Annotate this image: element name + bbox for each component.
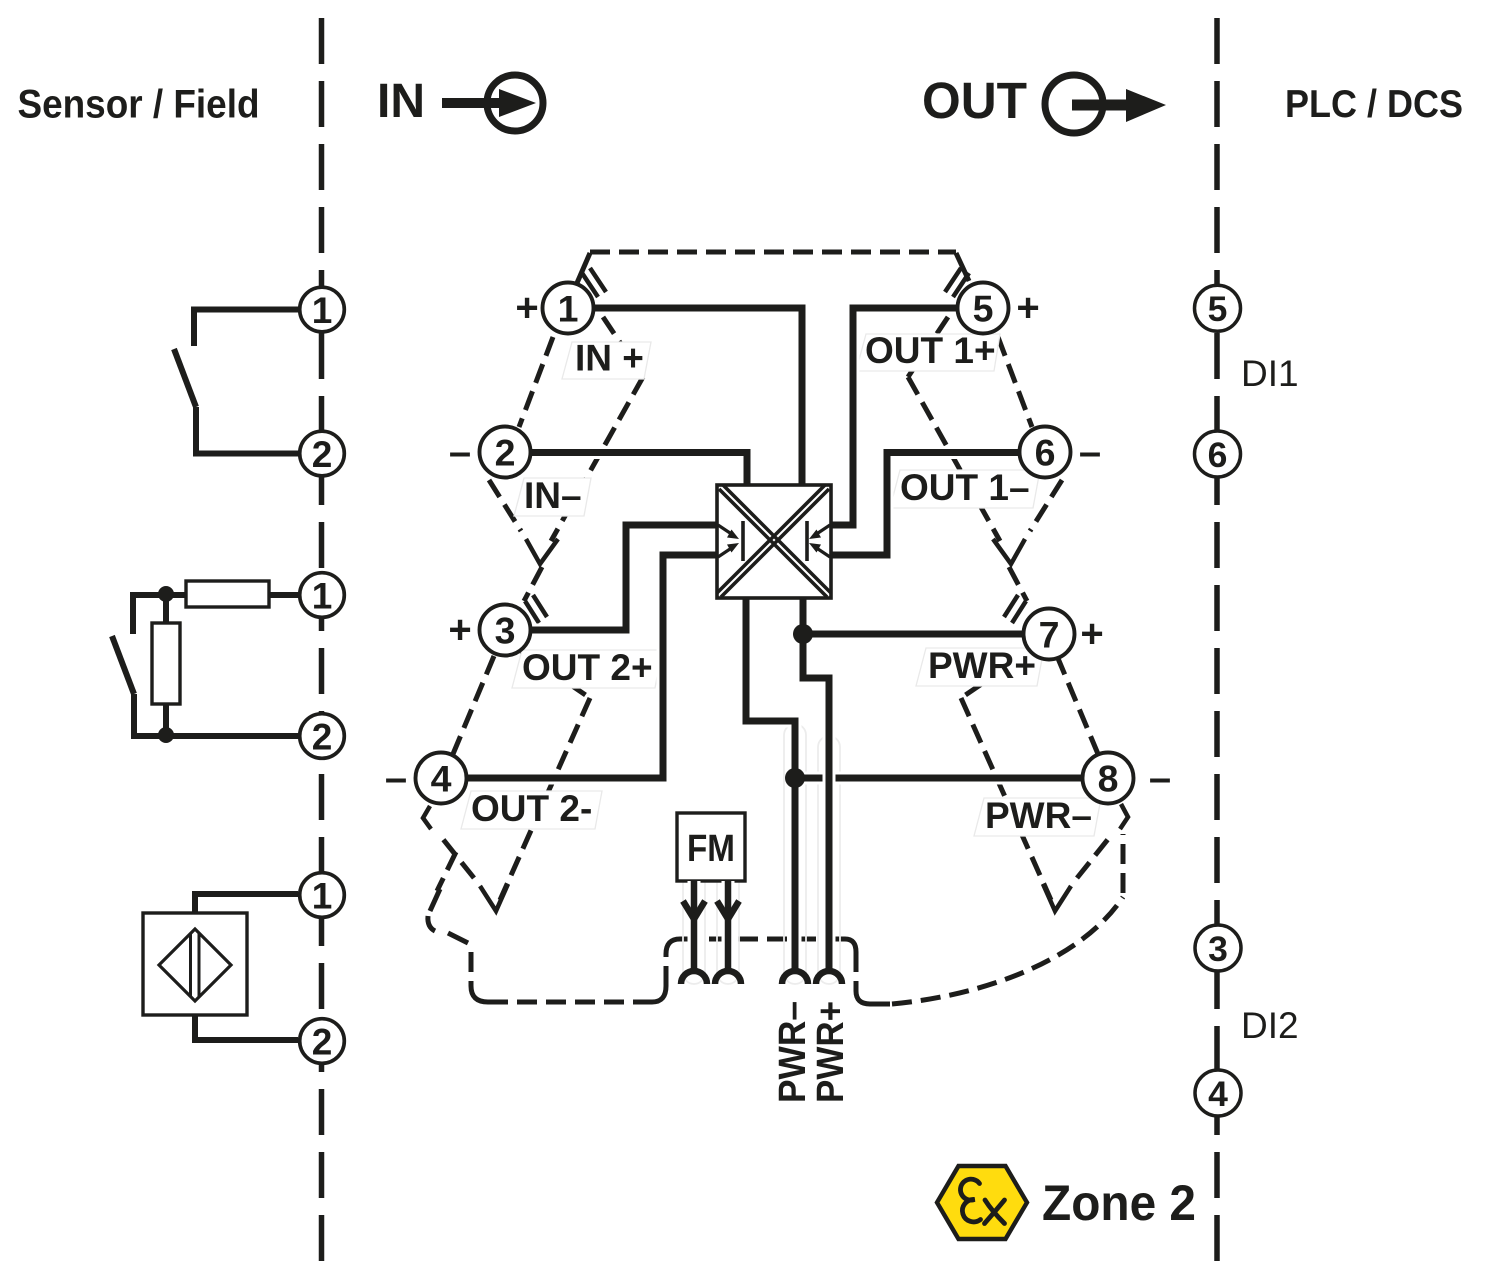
terminal 1 left column group3 — [300, 873, 345, 918]
svg-text:–: – — [449, 430, 471, 474]
svg-text:7: 7 — [1039, 614, 1060, 656]
svg-text:+: + — [1080, 612, 1103, 656]
terminal 4 right column — [1195, 1070, 1241, 1116]
svg-text:2: 2 — [312, 716, 333, 757]
terminal 1 left column — [300, 287, 345, 1063]
wire isolator to PWR- bottom terminal — [746, 598, 795, 970]
svg-text:+: + — [1016, 286, 1039, 330]
svg-text:IN: IN — [377, 75, 425, 128]
module outline top-right corner — [956, 253, 969, 281]
svg-text:Zone 2: Zone 2 — [1042, 1175, 1196, 1231]
node vee joint below terminals 3-4 — [480, 884, 508, 911]
wire terminal 4 to isolator (OUT 2-) — [466, 555, 717, 778]
node zigzag joint below terminals 1-2 — [526, 539, 558, 564]
svg-text:5: 5 — [1208, 289, 1228, 329]
connector block outline terminals 7-8 — [961, 651, 1113, 900]
wire FM output 1 — [688, 881, 701, 970]
svg-text:PLC / DCS: PLC / DCS — [1285, 83, 1463, 126]
label background PWR+ — [916, 648, 1044, 686]
symbol Ex epsilon — [960, 1179, 980, 1222]
wire FM output 2 — [722, 881, 735, 970]
svg-text:4: 4 — [1208, 1074, 1228, 1114]
terminal 6 OUT1- — [1020, 427, 1071, 478]
svg-text:OUT 1+: OUT 1+ — [865, 330, 996, 371]
resistor R1 (series) — [186, 581, 269, 607]
connector block outline terminals 1-2 — [489, 317, 643, 601]
junction node S2 top — [158, 586, 174, 602]
label background PWR- — [974, 798, 1101, 836]
terminal 2 IN- — [480, 427, 531, 478]
svg-text:3: 3 — [1208, 929, 1228, 969]
terminal socket PWR- — [782, 971, 808, 984]
isolator U1 (signal conditioner) — [717, 485, 831, 598]
node zigzag joint below terminals 5-6 — [993, 539, 1025, 564]
resistor R2 (parallel) — [152, 623, 180, 704]
terminal 2 left column group2 — [300, 714, 345, 759]
sensor switch with resistors S2 — [112, 594, 299, 736]
node vee joint below terminals 7-8 — [1043, 884, 1071, 911]
terminal 2 left column — [300, 431, 345, 476]
wire terminal 2 to isolator (IN-) — [529, 453, 747, 488]
wire terminal 1 to isolator (IN+) — [593, 308, 802, 487]
svg-text:IN +: IN + — [575, 338, 644, 379]
svg-text:IN–: IN– — [524, 475, 582, 516]
module outline top dashed edge — [590, 250, 956, 255]
terminal 1 left column group2 — [300, 573, 345, 618]
svg-text:+: + — [448, 608, 471, 652]
terminal socket FM2 — [715, 971, 741, 984]
wire left boundary dashed line (Sensor/Field separator) — [319, 18, 325, 1274]
label background IN + — [562, 342, 651, 379]
svg-text:PWR+: PWR+ — [810, 1001, 852, 1103]
svg-text:4: 4 — [431, 758, 452, 800]
terminal socket FM1 — [681, 971, 707, 984]
FM function module box — [677, 813, 745, 881]
node zigzag joint below terminal 8 — [1120, 804, 1128, 829]
connector block outline terminals 5-6 — [908, 317, 1062, 601]
node zigzag joint below terminal 4 — [423, 806, 431, 829]
svg-text:2: 2 — [312, 1021, 333, 1062]
terminal 6 right column — [1195, 431, 1241, 477]
terminal 7 PWR+ — [1024, 609, 1075, 660]
svg-text:OUT 2+: OUT 2+ — [522, 647, 653, 688]
terminal 4 OUT2- — [416, 753, 467, 804]
node notch at terminal 5 — [945, 268, 969, 297]
sensor switch S1 — [174, 310, 300, 454]
svg-text:3: 3 — [495, 610, 516, 652]
node notch at terminal 1 — [582, 268, 606, 297]
svg-text:PWR–: PWR– — [985, 795, 1092, 836]
terminal 1 IN+ — [543, 283, 594, 334]
terminal 5 right column — [1195, 285, 1241, 331]
svg-text:1: 1 — [312, 575, 333, 616]
symbol Ex x — [985, 1200, 1005, 1224]
svg-text:Sensor / Field: Sensor / Field — [18, 83, 260, 127]
sensor proximity switch S3 — [143, 894, 298, 1040]
terminal socket PWR+ — [816, 971, 842, 984]
wire PWR- junction to terminal 8 — [795, 772, 1083, 785]
label background IN- — [514, 478, 591, 516]
junction node S2 bottom — [158, 727, 174, 743]
svg-text:1: 1 — [312, 290, 333, 331]
svg-text:OUT 2-: OUT 2- — [471, 788, 592, 829]
svg-text:–: – — [1079, 430, 1101, 474]
node notch at terminal 7 — [1004, 595, 1026, 623]
svg-text:OUT 1–: OUT 1– — [900, 467, 1030, 508]
svg-text:2: 2 — [495, 432, 516, 474]
wire terminal 5 to isolator (OUT 1+) — [831, 308, 958, 525]
svg-text:PWR–: PWR– — [772, 1001, 814, 1103]
wire casing ghosts (connector area) — [683, 724, 840, 984]
symbol OUT arrow — [1045, 75, 1166, 133]
svg-text:1: 1 — [558, 288, 579, 330]
label background OUT 1+ — [856, 334, 1000, 371]
svg-text:–: – — [385, 756, 407, 800]
label background OUT 1- — [890, 470, 1040, 508]
junction PWR- node — [785, 768, 805, 788]
wire terminal 6 to isolator (OUT 1-) — [831, 453, 1021, 556]
connector block outline terminals 3-4 — [437, 651, 590, 900]
terminal 3 OUT2+ — [480, 605, 531, 656]
label background OUT 2+ — [512, 650, 662, 688]
wire right boundary dashed line (PLC/DCS separator) — [1214, 18, 1220, 1274]
terminal 3 right column — [1195, 925, 1241, 971]
symbol IN arrow — [442, 75, 543, 131]
module outline bottom-left dashed path — [471, 834, 1123, 1004]
wire terminal 3 to isolator (OUT 2+) — [530, 525, 717, 630]
svg-text:8: 8 — [1098, 758, 1119, 800]
svg-text:5: 5 — [973, 288, 994, 330]
svg-text:DI1: DI1 — [1241, 353, 1299, 394]
terminal 8 PWR- — [1083, 753, 1134, 804]
svg-text:FM: FM — [687, 828, 735, 870]
svg-text:OUT: OUT — [922, 72, 1027, 129]
junction PWR+ node — [793, 624, 813, 644]
svg-text:DI2: DI2 — [1241, 1005, 1299, 1046]
svg-text:6: 6 — [1035, 432, 1056, 474]
terminal 2 left column group3 — [300, 1019, 345, 1064]
wire isolator to PWR+ bottom terminal — [803, 598, 829, 970]
svg-text:PWR+: PWR+ — [928, 645, 1036, 686]
svg-text:6: 6 — [1208, 435, 1228, 475]
svg-text:+: + — [515, 286, 538, 330]
svg-text:–: – — [1149, 756, 1171, 800]
module outline top-left corner — [577, 253, 590, 283]
terminal 5 OUT1+ — [958, 283, 1009, 334]
node notch at terminal 3 — [525, 595, 547, 623]
wire isolator junction to terminal 7 (PWR+) — [803, 628, 1024, 641]
symbol Ex hexagon — [937, 1166, 1027, 1239]
svg-text:1: 1 — [312, 875, 333, 916]
label background OUT 2- — [461, 791, 602, 829]
svg-text:2: 2 — [312, 434, 333, 475]
